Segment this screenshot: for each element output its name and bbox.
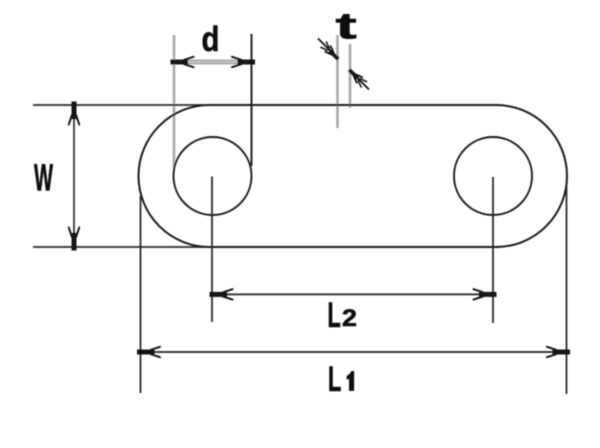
t arrow lower-right pointing up-left [347, 67, 369, 89]
L2 arrow right [474, 289, 497, 299]
W arrow up [69, 102, 79, 125]
W arrow down [69, 228, 79, 251]
L1 extension line left [140, 196, 142, 393]
left hole centerline down [211, 177, 213, 323]
L1 dimension line [142, 351, 566, 353]
d extension line left (gray) [173, 35, 176, 168]
right hole [454, 137, 532, 215]
svg-text:L: L [328, 361, 341, 399]
d arrow right [232, 57, 255, 67]
W dimension line [73, 106, 75, 246]
t section line left (gray) [336, 35, 339, 128]
label L1 subscript 1 [347, 371, 354, 390]
right hole centerline down [492, 177, 494, 323]
L1 extension line right [566, 183, 568, 394]
bottom edge / W extension line [33, 246, 500, 248]
d extension line right [251, 34, 253, 166]
svg-text:d: d [202, 20, 220, 59]
svg-text:L: L [328, 297, 341, 335]
L1 arrow right [547, 347, 570, 357]
left hole [174, 137, 252, 215]
L1 arrow left [137, 347, 160, 357]
t arrow upper-left pointing down-right [318, 39, 341, 62]
plate outline (stadium) [139, 105, 568, 247]
svg-text:t: t [336, 6, 357, 47]
L2 dimension line [214, 293, 492, 295]
svg-text:W: W [34, 157, 53, 199]
svg-text:2: 2 [342, 305, 357, 331]
L2 arrow left [210, 289, 233, 299]
t section line right (gray) [349, 44, 352, 108]
d arrow left [171, 57, 194, 67]
d dimension shaft (light) [182, 60, 244, 64]
top edge / W extension line [33, 104, 500, 106]
